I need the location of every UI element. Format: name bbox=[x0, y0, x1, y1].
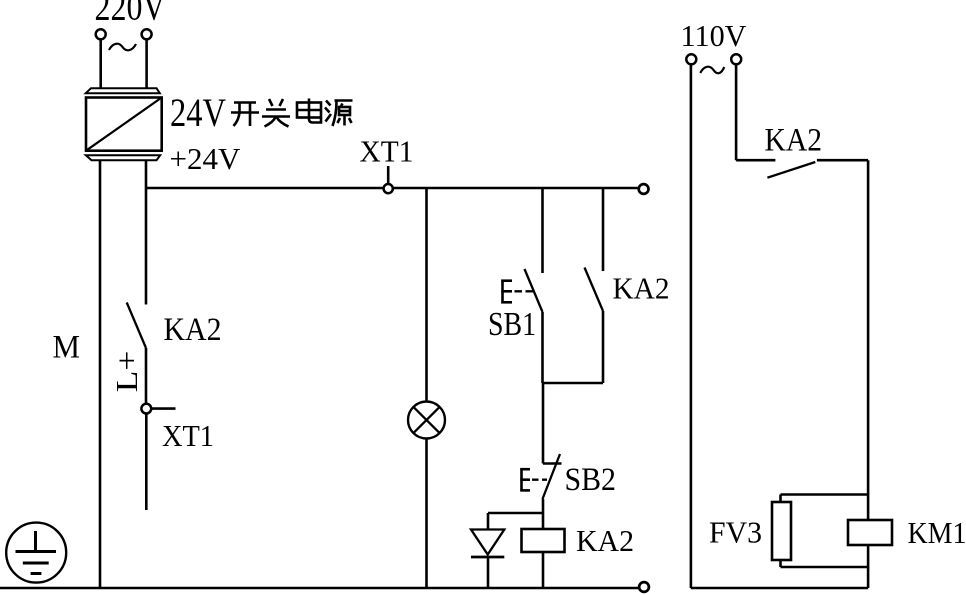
svg-text:+24V: +24V bbox=[170, 141, 241, 176]
svg-text:KM1: KM1 bbox=[908, 516, 966, 550]
svg-text:KA2: KA2 bbox=[613, 271, 670, 306]
svg-text:24V: 24V bbox=[170, 90, 226, 135]
svg-text:L+: L+ bbox=[109, 351, 144, 393]
svg-text:SB1: SB1 bbox=[488, 306, 536, 343]
svg-text:110V: 110V bbox=[681, 18, 748, 53]
svg-text:KA2: KA2 bbox=[164, 312, 222, 348]
svg-text:FV3: FV3 bbox=[709, 515, 762, 550]
svg-text:SB2: SB2 bbox=[565, 462, 617, 498]
svg-text:220V: 220V bbox=[95, 0, 166, 29]
svg-text:M: M bbox=[53, 330, 81, 366]
svg-text:KA2: KA2 bbox=[765, 123, 823, 159]
svg-text:KA2: KA2 bbox=[576, 523, 634, 558]
svg-text:XT1: XT1 bbox=[162, 418, 214, 453]
svg-text:XT1: XT1 bbox=[360, 134, 414, 169]
